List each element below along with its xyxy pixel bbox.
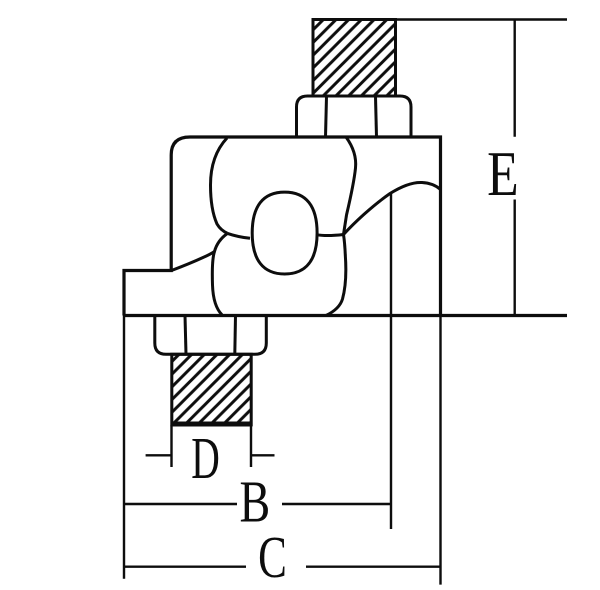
svg-text:C: C — [258, 526, 287, 590]
svg-text:E: E — [487, 140, 519, 209]
svg-text:D: D — [191, 425, 220, 491]
